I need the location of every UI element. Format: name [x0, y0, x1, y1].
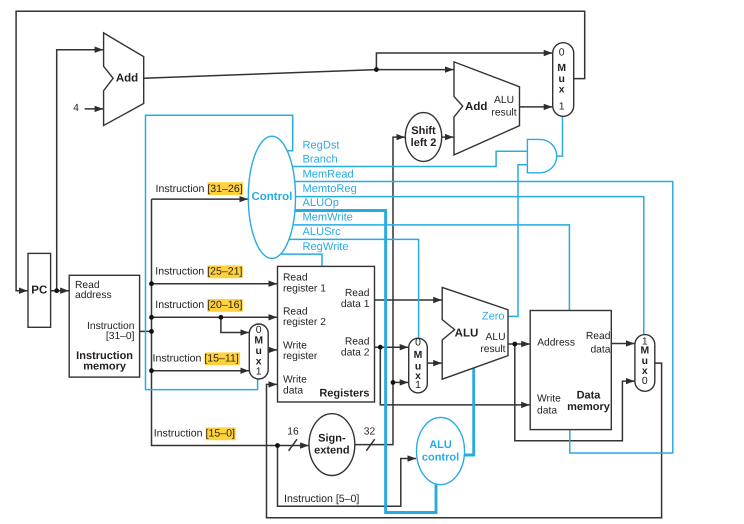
svg-text:Zero: Zero — [482, 311, 505, 323]
svg-text:data: data — [537, 406, 557, 417]
svg-text:Read: Read — [283, 306, 308, 317]
svg-text:ALUOp: ALUOp — [303, 197, 339, 209]
svg-text:PC: PC — [31, 284, 47, 296]
svg-text:Read: Read — [283, 273, 308, 284]
svg-text:ALUSrc: ALUSrc — [303, 226, 342, 238]
svg-text:Write: Write — [537, 394, 561, 405]
svg-text:MemRead: MemRead — [303, 168, 354, 180]
svg-text:ALU: ALU — [455, 327, 479, 339]
svg-text:Control: Control — [251, 191, 292, 203]
svg-text:Write: Write — [283, 375, 307, 386]
svg-text:register 2: register 2 — [283, 317, 326, 328]
svg-text:32: 32 — [364, 426, 376, 437]
svg-text:address: address — [75, 290, 112, 301]
svg-text:control: control — [422, 452, 459, 464]
svg-text:Instruction [15–0]: Instruction [15–0] — [154, 428, 235, 440]
svg-text:memory: memory — [567, 401, 611, 413]
svg-text:RegDst: RegDst — [303, 139, 340, 151]
svg-text:M: M — [557, 63, 566, 74]
svg-text:Instruction [20–16]: Instruction [20–16] — [155, 299, 242, 311]
svg-text:Read: Read — [345, 337, 370, 348]
svg-text:Branch: Branch — [303, 154, 338, 166]
svg-text:Instruction [15–11]: Instruction [15–11] — [153, 353, 239, 365]
svg-text:Read: Read — [345, 288, 370, 299]
svg-text:ALU: ALU — [494, 95, 514, 106]
svg-text:MemWrite: MemWrite — [303, 212, 353, 224]
svg-text:M: M — [414, 350, 423, 361]
svg-text:0: 0 — [415, 338, 421, 349]
svg-text:MemtoReg: MemtoReg — [303, 183, 357, 195]
svg-text:Add: Add — [465, 101, 487, 113]
svg-text:register: register — [283, 351, 318, 362]
svg-text:Read: Read — [586, 331, 611, 342]
svg-text:0: 0 — [559, 47, 565, 58]
svg-text:4: 4 — [73, 103, 79, 114]
svg-text:Write: Write — [283, 340, 307, 351]
svg-text:1: 1 — [559, 101, 565, 112]
svg-text:left 2: left 2 — [411, 137, 437, 149]
svg-text:data 1: data 1 — [341, 299, 370, 310]
svg-text:register 1: register 1 — [283, 283, 326, 294]
svg-text:extend: extend — [314, 445, 349, 457]
svg-text:data 2: data 2 — [341, 348, 370, 359]
svg-text:0: 0 — [256, 325, 262, 336]
svg-text:result: result — [480, 344, 505, 355]
svg-text:x: x — [559, 84, 565, 95]
svg-text:u: u — [256, 346, 262, 357]
svg-text:Data: Data — [577, 390, 602, 402]
svg-text:M: M — [254, 335, 263, 346]
svg-text:0: 0 — [642, 376, 648, 387]
svg-text:data: data — [590, 344, 610, 355]
svg-text:Address: Address — [537, 337, 575, 348]
svg-text:Instruction [5–0]: Instruction [5–0] — [284, 493, 359, 505]
svg-text:ALU: ALU — [485, 332, 505, 343]
svg-text:memory: memory — [83, 361, 127, 373]
svg-text:result: result — [491, 107, 516, 118]
svg-text:16: 16 — [287, 426, 299, 437]
svg-text:ALU: ALU — [429, 439, 452, 451]
svg-text:Sign-: Sign- — [318, 433, 346, 445]
svg-text:[31–0]: [31–0] — [106, 331, 135, 342]
svg-text:Registers: Registers — [319, 388, 369, 400]
svg-text:1: 1 — [256, 366, 262, 377]
svg-text:Instruction [25–21]: Instruction [25–21] — [155, 266, 242, 278]
svg-text:Instruction [31–26]: Instruction [31–26] — [156, 183, 243, 195]
svg-text:1: 1 — [415, 380, 421, 391]
svg-text:data: data — [283, 385, 303, 396]
svg-text:Add: Add — [116, 72, 138, 84]
svg-text:RegWrite: RegWrite — [303, 241, 349, 253]
svg-text:Shift: Shift — [411, 125, 436, 137]
